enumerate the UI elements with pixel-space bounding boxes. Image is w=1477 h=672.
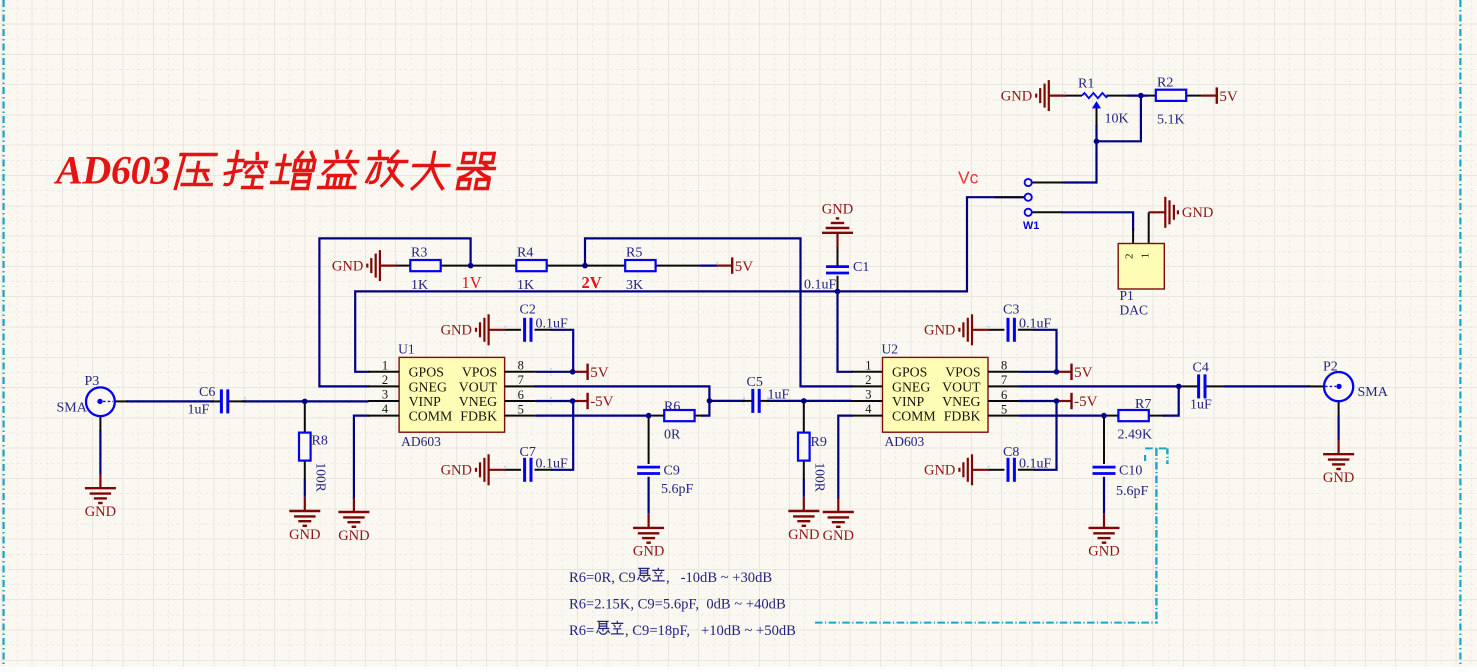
svg-text:1uF: 1uF — [188, 403, 210, 418]
svg-text:R4: R4 — [517, 246, 533, 261]
svg-text:3K: 3K — [626, 278, 643, 293]
svg-text:GND: GND — [823, 528, 854, 544]
svg-text:FDBK: FDBK — [460, 409, 497, 424]
U1 pin 5 FDBK — [505, 402, 536, 416]
power 5V U1 VPOS — [573, 364, 609, 381]
off-grid markers — [393, 265, 401, 267]
connector P3 SMA — [86, 387, 115, 416]
C5 leads — [742, 400, 753, 402]
svg-text:C10: C10 — [1119, 464, 1142, 479]
svg-text:3: 3 — [382, 388, 388, 402]
junction input node — [302, 399, 308, 405]
svg-text:DAC: DAC — [1120, 303, 1149, 318]
wire U2 FDBK to R7 node — [1019, 415, 1104, 417]
op-amp U1 AD603 — [398, 341, 505, 449]
C8 leads — [989, 469, 1005, 471]
ground at P1 — [1149, 197, 1214, 228]
wire U2 pin8 to 5V — [1019, 371, 1057, 373]
P2 gnd pin — [1338, 401, 1340, 416]
svg-text:6: 6 — [1001, 388, 1007, 402]
svg-text:0.1uF: 0.1uF — [1019, 457, 1052, 472]
power -5V U2 VNEG — [1057, 393, 1098, 410]
svg-text:3: 3 — [865, 388, 871, 402]
junction U1 VPOS 5V — [570, 369, 576, 375]
wire C5 to U2 VINP — [767, 400, 852, 402]
ground above C1 — [822, 202, 853, 248]
wire R7 to VOUT node — [1164, 386, 1179, 415]
svg-text:GND: GND — [788, 527, 819, 543]
svg-text:-5V: -5V — [590, 394, 613, 410]
wire P3 to C6 — [126, 400, 214, 402]
power -5V U1 VNEG — [573, 393, 614, 410]
svg-text:C2: C2 — [520, 303, 536, 318]
svg-text:R5: R5 — [626, 246, 642, 261]
wire U2 GPOS drop — [838, 291, 852, 371]
svg-text:5: 5 — [1001, 402, 1007, 416]
wire U1 FDBK to R6 node — [536, 415, 649, 417]
C7 leads — [505, 469, 521, 471]
ground below R9 — [788, 497, 819, 543]
junction U2 VNEG -5V — [1054, 398, 1060, 404]
W1 pin leads — [1032, 182, 1065, 184]
svg-text:GNEG: GNEG — [892, 379, 930, 394]
junction node 1V — [468, 263, 474, 269]
svg-text:C5: C5 — [747, 375, 763, 390]
potentiometer R1 — [1082, 93, 1108, 98]
svg-text:1: 1 — [382, 358, 388, 372]
resistor R8 body — [299, 433, 311, 461]
capacitor C10 plates — [1093, 467, 1116, 473]
svg-text:2: 2 — [1124, 253, 1136, 259]
wire U1 COMM to gnd — [354, 416, 369, 498]
svg-text:1uF: 1uF — [768, 388, 790, 403]
svg-text:R2: R2 — [1157, 76, 1173, 91]
svg-text:C3: C3 — [1003, 303, 1019, 318]
svg-text:GND: GND — [441, 323, 472, 339]
U2 pin 8 VPOS — [988, 359, 1019, 373]
svg-text:SMA: SMA — [57, 400, 88, 415]
svg-text:W1: W1 — [1023, 220, 1039, 232]
C10 lead — [1103, 416, 1105, 464]
resistor R3 body — [410, 260, 440, 271]
U2 pin 1 GPOS — [852, 358, 883, 372]
svg-text:7: 7 — [518, 373, 524, 387]
power 5V U2 VPOS — [1057, 364, 1093, 381]
wire C8 to U2 VNEG — [1035, 401, 1057, 470]
ground at R3 — [332, 250, 397, 281]
ground at R1 — [1001, 80, 1066, 111]
svg-text:1V: 1V — [462, 273, 482, 292]
R2 leads — [1148, 95, 1156, 97]
R1 wiper arrow — [1093, 102, 1101, 108]
ground below R8 — [289, 497, 320, 543]
R4 leads — [471, 265, 517, 267]
wire P3 gnd segment — [99, 430, 101, 474]
svg-text:C6: C6 — [199, 385, 215, 400]
svg-text:5V: 5V — [1074, 365, 1093, 381]
DAC pin 2 lead — [1132, 228, 1134, 244]
C9 lead — [648, 416, 650, 464]
wire U1 pin8 to 5V — [536, 371, 573, 373]
wire C2 to U1 VPOS — [552, 330, 574, 372]
R8 leads — [304, 401, 306, 432]
capacitor C5 plates — [753, 389, 759, 413]
svg-text:R7: R7 — [1135, 397, 1151, 412]
svg-text:5.6pF: 5.6pF — [1116, 484, 1149, 499]
power 5V at R5 — [717, 257, 753, 274]
svg-text:U1: U1 — [398, 341, 415, 356]
svg-text:R9: R9 — [811, 435, 827, 450]
svg-text:100R: 100R — [314, 463, 329, 492]
svg-text:GNEG: GNEG — [409, 379, 447, 394]
R1 leads — [1065, 95, 1082, 97]
ground at C2 — [441, 314, 506, 345]
capacitor C7 plates — [525, 458, 531, 482]
svg-text:GPOS: GPOS — [409, 365, 444, 380]
connector W1 pins — [1025, 179, 1032, 186]
ground below U2 COMM — [823, 498, 854, 544]
connector P2 SMA — [1324, 372, 1353, 401]
wire R9 gnd segment — [803, 479, 805, 497]
junction R1 wiper node — [1094, 139, 1100, 145]
svg-text:VOUT: VOUT — [459, 379, 498, 394]
svg-text:P2: P2 — [1323, 360, 1338, 375]
U2 pin 6 VNEG — [988, 388, 1019, 402]
svg-text:C1: C1 — [853, 260, 869, 275]
junction U1 VNEG -5V — [570, 398, 576, 404]
svg-text:VINP: VINP — [409, 394, 442, 409]
svg-text:0.1uF: 0.1uF — [1019, 317, 1052, 332]
svg-text:5.6pF: 5.6pF — [661, 482, 694, 497]
C4 leads — [1179, 385, 1199, 387]
svg-text:GND: GND — [1323, 470, 1354, 486]
wire W1 pin3 to DAC — [1062, 212, 1133, 230]
junction node 2V — [582, 263, 588, 269]
svg-text:2.49K: 2.49K — [1118, 428, 1153, 443]
junction R7/C10 node — [1101, 413, 1107, 419]
svg-text:VPOS: VPOS — [945, 365, 980, 380]
ground below C10 — [1088, 514, 1119, 560]
svg-text:GND: GND — [1182, 205, 1213, 221]
wire VOUT node to C5 — [709, 400, 745, 402]
wire C10 gnd segment — [1103, 477, 1105, 514]
svg-text:GND: GND — [441, 463, 472, 479]
svg-text:5: 5 — [518, 402, 524, 416]
C3 leads — [989, 329, 1005, 331]
svg-text:VNEG: VNEG — [942, 394, 980, 409]
title text 压控增益放大器 — [174, 155, 217, 189]
junction U1 out node — [707, 398, 713, 404]
svg-text:GND: GND — [822, 202, 853, 218]
R5 leads — [585, 265, 625, 267]
svg-text:P1: P1 — [1120, 288, 1134, 303]
op-amp U2 AD603 — [882, 341, 989, 449]
svg-text:GPOS: GPOS — [892, 365, 927, 380]
P3 pin lead — [115, 400, 128, 402]
svg-text:Vc: Vc — [958, 168, 979, 188]
svg-text:GND: GND — [633, 544, 664, 560]
junction R1/R2 node — [1138, 93, 1144, 99]
U2 pin 4 COMM — [852, 402, 883, 416]
C1 leads — [837, 247, 839, 267]
svg-text:FDBK: FDBK — [944, 409, 981, 424]
resistor R7 body — [1118, 410, 1148, 421]
svg-text:7: 7 — [1001, 373, 1007, 387]
U1 pin 1 GPOS — [368, 358, 399, 372]
svg-text:5V: 5V — [590, 365, 609, 381]
R7 leads — [1104, 415, 1118, 417]
capacitor C9 plates — [637, 467, 660, 473]
selection marquee left edge — [2, 0, 4, 667]
wire U2 COMM to gnd — [838, 416, 851, 498]
svg-text:R8: R8 — [312, 433, 328, 448]
ground at C7 — [441, 454, 506, 485]
resistor R2 body — [1156, 90, 1186, 101]
capacitor C8 plates — [1008, 458, 1014, 482]
svg-text:R6=0R, C9: R6=0R, C9 — [569, 570, 636, 586]
wire U2 GNEG to 2V node — [585, 238, 852, 386]
capacitor C6 plates — [221, 389, 227, 413]
svg-text:-5V: -5V — [1074, 394, 1097, 410]
R9 leads — [803, 401, 805, 433]
capacitor C1 plates — [826, 267, 849, 273]
P3 gnd pin — [99, 416, 101, 431]
C2 leads — [505, 329, 521, 331]
selection marquee right edge — [1459, 0, 1461, 667]
R6 leads — [649, 415, 664, 417]
svg-text:10K: 10K — [1105, 112, 1129, 127]
connector P1 DAC — [1118, 244, 1164, 290]
svg-text:1uF: 1uF — [1190, 398, 1212, 413]
ground at C8 — [924, 454, 989, 485]
svg-text:VINP: VINP — [892, 394, 925, 409]
ground below U1 COMM — [338, 498, 369, 544]
ground below C9 — [633, 514, 664, 560]
svg-text:6: 6 — [518, 388, 524, 402]
svg-text:C7: C7 — [520, 445, 536, 460]
wire U1 VOUT — [536, 386, 710, 401]
wire U2 pin6 to -5V — [1019, 400, 1057, 402]
svg-text:GND: GND — [924, 323, 955, 339]
R1 wiper stem — [1096, 108, 1098, 127]
svg-text:8: 8 — [518, 359, 524, 373]
ground at C3 — [924, 314, 989, 345]
wire P2 gnd segment — [1337, 416, 1339, 441]
C6 leads — [212, 400, 221, 402]
DAC pin 1 lead — [1148, 212, 1150, 243]
svg-text:P3: P3 — [85, 374, 100, 389]
resistor R5 body — [625, 260, 655, 271]
wire U2 VOUT to C4 — [1019, 385, 1179, 387]
svg-text:COMM: COMM — [892, 409, 936, 424]
svg-text:R3: R3 — [411, 246, 427, 261]
junction R6/C9 node — [646, 413, 652, 419]
svg-text:0.1uF: 0.1uF — [536, 457, 569, 472]
U1 pin 6 VNEG — [505, 388, 536, 402]
svg-text:4: 4 — [865, 402, 872, 416]
power 5V at R2 — [1202, 87, 1238, 104]
svg-text:C8: C8 — [1003, 445, 1019, 460]
U2 pin 3 VINP — [852, 388, 883, 402]
wire C3 to U2 VPOS — [1035, 330, 1057, 372]
P2 pin lead — [1308, 385, 1324, 387]
wire R6 to VOUT node — [702, 401, 709, 416]
U2 pin 7 VOUT — [988, 373, 1019, 387]
svg-text:R1: R1 — [1078, 77, 1094, 92]
svg-text:1K: 1K — [411, 278, 428, 293]
wire R1 output — [1127, 94, 1148, 96]
svg-text:SMA: SMA — [1358, 385, 1389, 400]
svg-text:GND: GND — [338, 528, 369, 544]
svg-text:VOUT: VOUT — [942, 379, 981, 394]
svg-text:, C9=18pF, +10dB ~ +50dB: , C9=18pF, +10dB ~ +50dB — [625, 623, 796, 639]
svg-text:R6: R6 — [664, 400, 680, 415]
R3 leads — [397, 265, 411, 267]
wire C7 to U1 VNEG — [552, 401, 574, 470]
U1 pin 8 VPOS — [505, 359, 536, 373]
resistor R9 body — [798, 433, 810, 461]
svg-text:0.1uF: 0.1uF — [536, 317, 569, 332]
ground below P3 — [85, 474, 116, 520]
svg-text:AD603: AD603 — [885, 434, 925, 449]
wire GPOS line / Vc — [355, 197, 1026, 372]
U1 pin 3 VINP — [368, 388, 399, 402]
svg-text:VPOS: VPOS — [462, 365, 497, 380]
svg-text:GND: GND — [289, 527, 320, 543]
junction node Vc/C1 — [835, 289, 841, 295]
svg-text:1K: 1K — [517, 278, 534, 293]
wire R1 wiper loop — [1065, 126, 1097, 183]
svg-text:100R: 100R — [813, 463, 828, 492]
svg-text:, -10dB ~ +30dB: , -10dB ~ +30dB — [666, 570, 772, 586]
wire C6 to U1 VINP — [242, 400, 369, 402]
U2 pin 5 FDBK — [988, 402, 1019, 416]
svg-text:5V: 5V — [735, 259, 754, 275]
U2 pin 2 GNEG — [852, 373, 883, 387]
resistor R4 body — [516, 260, 546, 271]
svg-text:C9: C9 — [664, 464, 680, 479]
svg-text:C4: C4 — [1193, 360, 1209, 375]
svg-text:R6=2.15K, C9=5.6pF, 0dB ~ +40: R6=2.15K, C9=5.6pF, 0dB ~ +40dB — [569, 596, 786, 612]
svg-text:AD603: AD603 — [401, 434, 441, 449]
selection marquee bottom — [815, 622, 1158, 624]
capacitor C3 plates — [1008, 318, 1014, 342]
junction U2 VPOS 5V — [1054, 369, 1060, 375]
svg-text:2: 2 — [382, 373, 388, 387]
capacitor C2 plates — [525, 318, 531, 342]
U1 pin 7 VOUT — [505, 373, 536, 387]
U1 pin 4 COMM — [368, 402, 399, 416]
wire R8 gnd segment — [304, 479, 306, 497]
ground below P2 — [1323, 440, 1354, 486]
wire U1 pin6 to -5V — [536, 400, 573, 402]
wire C9 gnd segment — [647, 477, 649, 514]
svg-text:8: 8 — [1001, 359, 1007, 373]
svg-text:5V: 5V — [1219, 89, 1238, 105]
svg-text:AD603: AD603 — [53, 148, 170, 193]
svg-text:4: 4 — [382, 402, 389, 416]
svg-text:GND: GND — [85, 504, 116, 520]
svg-text:GND: GND — [924, 463, 955, 479]
capacitor C4 plates — [1199, 374, 1205, 398]
svg-text:1: 1 — [865, 358, 871, 372]
U1 pin 2 GNEG — [368, 373, 399, 387]
svg-text:VNEG: VNEG — [459, 394, 497, 409]
resistor R6 body — [664, 410, 694, 421]
svg-text:COMM: COMM — [409, 409, 453, 424]
svg-text:U2: U2 — [882, 341, 899, 356]
svg-text:GND: GND — [1001, 89, 1032, 105]
svg-text:R6=: R6= — [569, 623, 594, 639]
wire U1 GNEG to 1V node — [319, 238, 470, 386]
junction U2 in node — [801, 398, 807, 404]
svg-text:0R: 0R — [664, 427, 681, 442]
svg-text:1: 1 — [1139, 253, 1151, 259]
svg-text:2: 2 — [865, 373, 871, 387]
wire C4 to P2 — [1224, 385, 1310, 387]
svg-text:GND: GND — [332, 259, 363, 275]
junction U2 out node — [1176, 384, 1182, 390]
svg-text:0.1uF: 0.1uF — [804, 278, 837, 293]
svg-text:5.1K: 5.1K — [1157, 112, 1185, 127]
svg-text:GND: GND — [1088, 544, 1119, 560]
svg-text:2V: 2V — [582, 273, 602, 292]
